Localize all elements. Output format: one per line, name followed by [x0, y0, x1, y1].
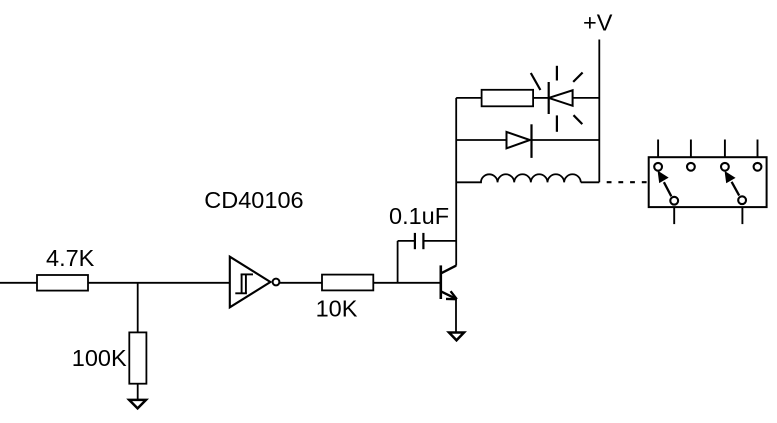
- svg-text:4.7K: 4.7K: [46, 245, 95, 271]
- svg-text:+V: +V: [583, 10, 613, 36]
- svg-text:0.1uF: 0.1uF: [389, 203, 449, 229]
- svg-text:CD40106: CD40106: [204, 187, 303, 213]
- svg-text:100K: 100K: [72, 345, 127, 371]
- svg-text:10K: 10K: [316, 296, 358, 322]
